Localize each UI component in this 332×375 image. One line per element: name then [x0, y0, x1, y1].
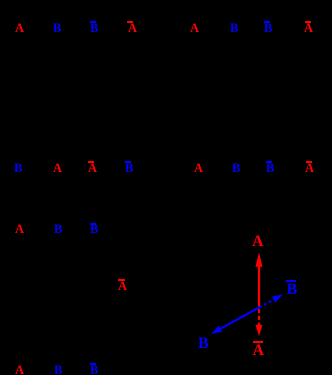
node label B-bar (row2 gate 4)	[125, 167, 133, 169]
vector A (solid red arrow up)	[256, 252, 263, 307]
node label B-bar (row1 gate 3)	[90, 27, 98, 29]
node label A (row2 gate 2)	[53, 167, 62, 169]
node label B (row1 gate 2)	[53, 27, 61, 29]
vector legend label A-bar	[253, 350, 265, 352]
node label A-bar (row1 gate 8)	[304, 27, 313, 29]
node label B (row1 gate 6)	[230, 27, 238, 29]
node label A-bar (row2 gate 8)	[305, 167, 314, 169]
node label A (row4 gate 1)	[15, 369, 24, 371]
node label A (row3 gate 1)	[15, 228, 24, 230]
node label B-bar (row1 gate 7)	[264, 27, 272, 29]
node label A (row2 gate 5)	[194, 167, 203, 169]
node label B (row2 gate 6)	[232, 167, 240, 169]
node label B (row4 gate 2)	[54, 369, 62, 371]
node label B-bar (row2 gate 7)	[266, 167, 274, 169]
node label A (row1 gate 5)	[190, 27, 199, 29]
vector B-bar (dashed blue arrow to upper-right)	[259, 294, 283, 307]
node label A (row1 gate 1)	[15, 27, 24, 29]
node label B (row2 gate 1)	[14, 167, 22, 169]
node label A-bar (pass gate)	[118, 285, 127, 287]
node label A-bar (row2 gate 3)	[88, 167, 97, 169]
node label B-bar (row3 gate 3)	[90, 228, 98, 230]
node label B-bar (row4 gate 3)	[90, 369, 98, 371]
vector legend label B	[198, 343, 209, 345]
vector legend label B-bar	[287, 289, 298, 291]
vector legend label A	[252, 241, 264, 243]
vector B (solid blue arrow to lower-left)	[211, 307, 259, 334]
node label A-bar (row1 gate 4)	[128, 27, 137, 29]
vector A-bar (dashed red arrow down)	[256, 309, 263, 336]
node label B (row3 gate 2)	[54, 228, 62, 230]
